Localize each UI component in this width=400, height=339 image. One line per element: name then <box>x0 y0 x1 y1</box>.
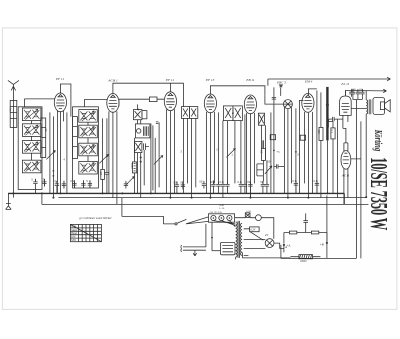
svg-text:100: 100 <box>317 129 321 134</box>
osc coupling box <box>149 97 157 102</box>
wire into T6 <box>265 96 284 150</box>
hatched resistor leads <box>290 256 320 258</box>
T3 electrode drops <box>166 109 174 197</box>
T7 electrode drops <box>304 112 312 198</box>
tube ACH1 T2 <box>107 94 119 113</box>
left feed wire <box>121 198 123 205</box>
osc junction dots <box>140 157 142 159</box>
selector to primary diagonals <box>213 221 235 227</box>
coil box A <box>41 118 46 158</box>
round tube T6 <box>283 100 292 109</box>
EL11 grid resistor box <box>331 128 335 139</box>
mains ground arrow <box>193 250 197 256</box>
bank2 coil box 3 <box>79 143 98 156</box>
svg-text:ACH 1: ACH 1 <box>107 78 118 82</box>
T1 top wire <box>60 84 71 117</box>
bottom right loop <box>281 100 357 259</box>
IF transformer boxes <box>181 107 189 119</box>
ground symbol left <box>6 193 12 209</box>
top right long wire with arrow <box>268 77 391 86</box>
dial lamp <box>265 239 274 248</box>
fuse holder <box>245 213 250 218</box>
T1 cathode drops <box>57 111 63 194</box>
IF transformer 2 boxes <box>223 106 233 121</box>
svg-text:L-10: L-10 <box>219 207 225 210</box>
tube EF11 T1 <box>54 93 66 112</box>
tube EM4 T7 <box>302 94 314 113</box>
caps row leads <box>35 179 90 194</box>
bank1 coil box 3 <box>22 141 41 154</box>
bus drop x42 <box>41 193 43 204</box>
band filter bank 2 frame <box>73 107 99 188</box>
svg-text:EM 4: EM 4 <box>304 79 313 83</box>
AZ11 tube <box>341 151 351 170</box>
svg-text:10/SE 7350 W: 10/SE 7350 W <box>365 157 391 230</box>
svg-text:MW: MW <box>71 239 76 242</box>
mid caps under bank2 <box>105 169 109 177</box>
svg-text:EF 13: EF 13 <box>205 78 215 82</box>
svg-text:6,3V: 6,3V <box>250 229 255 232</box>
svg-text:0,1: 0,1 <box>292 179 296 183</box>
extra caps mid <box>124 181 128 189</box>
svg-text:5000: 5000 <box>351 88 357 91</box>
osc drops <box>138 104 160 197</box>
T2 grid wire <box>84 99 107 106</box>
bus line B <box>58 197 366 199</box>
loop resistor 2 <box>311 231 318 234</box>
osc top cap <box>156 122 159 124</box>
svg-text:0,1: 0,1 <box>219 180 223 184</box>
svg-text:0,8A: 0,8A <box>246 210 251 213</box>
bank1 coil box 2 <box>22 124 41 137</box>
T5 electrode drops <box>246 113 254 198</box>
pot cluster <box>257 164 264 176</box>
T2 electrode drops <box>109 111 117 204</box>
resistor box mid right <box>261 148 265 160</box>
fuse <box>256 215 262 221</box>
bank2 coil box 4 <box>79 161 98 174</box>
bank2 inner coil column <box>73 117 78 159</box>
main ground bus (thick) <box>8 192 344 194</box>
AZ11 top stubs <box>343 128 348 151</box>
EL11 top wire <box>344 90 346 96</box>
bank2 inner links <box>87 122 89 161</box>
T6 left caps <box>272 87 276 103</box>
small box bottom x301 <box>300 135 305 140</box>
EBC3 link down <box>280 87 282 96</box>
second arrow wire <box>345 89 386 92</box>
tuning arrow gang 5 <box>226 148 235 157</box>
vertical resistor mid <box>132 162 136 173</box>
component value table <box>70 224 101 242</box>
detector filter box <box>258 113 264 125</box>
T4 top wire <box>210 86 265 96</box>
bank2 coil box 1 <box>79 110 98 123</box>
band filter bank 1 frame <box>18 107 42 190</box>
terminal block <box>220 242 235 254</box>
mains input terminals <box>181 245 206 252</box>
svg-text:+B: +B <box>320 242 324 246</box>
junction dot 274 <box>273 150 275 152</box>
EL11 anode wire to transformer <box>351 89 366 108</box>
osc C caps <box>143 143 149 150</box>
loop cap vertical <box>303 213 308 232</box>
fuse to lamp wire <box>261 218 274 239</box>
small box bottom x271 <box>270 135 275 140</box>
bank2 coil box 2 <box>79 125 98 138</box>
speaker cone <box>385 100 391 112</box>
small info box <box>250 227 260 232</box>
AZ11 heater drops <box>344 169 348 205</box>
bank1 inner links <box>30 121 32 161</box>
pot arrow <box>265 166 272 174</box>
EBC3 diode marks <box>279 85 283 87</box>
T7 top wire <box>299 89 308 193</box>
bus line C <box>42 203 369 205</box>
small res x101 <box>101 169 105 179</box>
output transformer winding <box>366 100 367 114</box>
caps row under T4 <box>202 181 206 189</box>
output tube EL11 <box>340 96 352 115</box>
svg-text:0,1: 0,1 <box>70 179 74 183</box>
tuning arrow gang 4 <box>125 176 134 185</box>
tuning arrow gang 2 <box>99 154 108 163</box>
power transformer primary winding <box>236 222 238 257</box>
switch feed drop <box>122 204 163 224</box>
caps row bank1 <box>33 179 37 187</box>
svg-text:4-40: 4-40 <box>219 204 224 207</box>
caps under arrow wire <box>351 89 355 97</box>
speaker inner <box>380 102 384 110</box>
resistor box right of T7 <box>319 127 323 140</box>
svg-text:EF 11: EF 11 <box>55 77 64 81</box>
junction dot selector <box>211 237 213 239</box>
tuning arrow gang 1 <box>46 150 55 159</box>
antenna <box>8 80 19 197</box>
extra verticals under T4 T5 <box>218 112 271 193</box>
osc box C <box>134 141 142 152</box>
T2 top wire to T3 <box>113 83 183 106</box>
bus junction dots <box>12 192 14 194</box>
junction dot 295 <box>295 151 297 153</box>
cathode cap EL11 <box>328 117 343 128</box>
loop components: resistor 1 <box>289 231 296 234</box>
tuning arrow gang 3 <box>154 155 163 164</box>
power transformer secondary winding <box>240 223 242 255</box>
vertical wires between bank1 and bank2 <box>50 112 67 197</box>
wires near shield <box>317 90 321 197</box>
AZ11 anode wire right and down <box>351 121 361 258</box>
osc coil box A <box>133 110 142 120</box>
caps row mid 50 50 <box>175 182 179 190</box>
antenna coil box <box>10 100 17 127</box>
tube EF13 T4 <box>204 94 216 113</box>
svg-text:AZ 11: AZ 11 <box>341 173 350 177</box>
transformer core <box>369 99 371 114</box>
mains switch <box>163 217 208 224</box>
svg-text:Körting: Körting <box>373 129 385 152</box>
svg-text:EBC 3: EBC 3 <box>276 80 286 84</box>
voltage selector panel <box>208 214 234 222</box>
caps right cluster <box>294 180 298 188</box>
svg-text:EB 11: EB 11 <box>245 78 254 82</box>
lamp right wire <box>274 243 284 252</box>
tube EB11 T5 <box>244 95 256 114</box>
loop wire y232 <box>284 232 327 234</box>
thick shield line <box>326 87 328 140</box>
IF drops <box>183 118 195 197</box>
svg-text:0,1: 0,1 <box>330 129 334 133</box>
junction dots bank1 bottom <box>53 170 55 172</box>
bus end drop x344 <box>343 193 345 204</box>
bank1 coil box 1 <box>22 108 41 121</box>
selector circles <box>211 215 216 220</box>
bank1 coil box 4 <box>22 160 41 173</box>
T1 grid wire <box>24 99 54 107</box>
box to lamp diagonal <box>250 232 263 241</box>
svg-text:+A: +A <box>286 243 291 247</box>
T4 electrode drops <box>206 112 214 198</box>
avc caps <box>273 164 281 168</box>
wire y257.5 <box>242 252 290 258</box>
svg-text:EL 11: EL 11 <box>340 82 349 86</box>
hatched resistor <box>299 255 313 264</box>
EL11 grid wires down <box>328 119 337 197</box>
svg-text:Ant: Ant <box>8 107 12 111</box>
tube EF11 T3 <box>164 92 176 111</box>
transformer secondary drop <box>365 91 367 197</box>
svg-text:M: M <box>210 180 212 184</box>
heater winding right taps <box>244 229 266 256</box>
svg-text:0,1: 0,1 <box>237 180 241 184</box>
svg-text:110 125 220: 110 125 220 <box>209 211 222 214</box>
EL11 cathode wires <box>343 90 348 128</box>
primary bottom connection <box>212 222 236 259</box>
svg-text:EF 11: EF 11 <box>165 78 174 82</box>
transformer core lines <box>238 221 240 258</box>
T6 drops <box>284 107 291 197</box>
svg-text:0,1: 0,1 <box>313 179 317 183</box>
svg-text:10000: 10000 <box>300 260 307 263</box>
osc box B with core <box>135 124 150 138</box>
svg-text:gr=Glimmer sonst Wickel: gr=Glimmer sonst Wickel <box>79 216 111 220</box>
electrolytic dots <box>283 244 285 246</box>
osc side box A2 <box>142 111 147 119</box>
speaker field box <box>373 98 385 115</box>
